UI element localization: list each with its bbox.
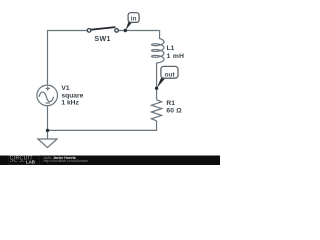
svg-text:60 Ω: 60 Ω [166,107,182,114]
svg-text:L1: L1 [167,45,175,52]
svg-text:in: in [131,16,137,23]
svg-text:LAB: LAB [26,159,35,164]
svg-text:out: out [164,71,175,78]
svg-text:V1: V1 [61,85,69,92]
svg-text:square: square [61,93,83,100]
svg-text:1 kHz: 1 kHz [61,100,79,107]
svg-text:R1: R1 [166,100,175,107]
svg-text:http://circuitlab.com/c6zwwte: http://circuitlab.com/c6zwwte [44,159,89,163]
svg-text:1 mH: 1 mH [167,53,185,60]
svg-text:SW1: SW1 [94,35,110,43]
